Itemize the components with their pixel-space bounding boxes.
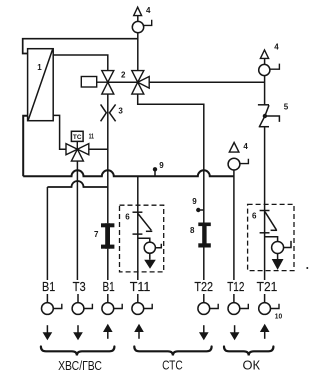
- svg-text:В1: В1: [103, 279, 115, 294]
- svg-text:3: 3: [118, 107, 123, 116]
- svg-text:6: 6: [252, 212, 257, 221]
- svg-text:СТС: СТС: [162, 358, 183, 373]
- svg-text:4: 4: [243, 142, 248, 151]
- svg-text:Т11: Т11: [130, 279, 151, 294]
- svg-text:Т21: Т21: [257, 279, 278, 294]
- svg-text:9: 9: [192, 197, 197, 206]
- svg-text:9: 9: [159, 161, 164, 170]
- svg-text:5: 5: [284, 102, 289, 111]
- svg-text:ОК: ОК: [242, 358, 260, 373]
- svg-text:6: 6: [125, 213, 130, 222]
- svg-text:1: 1: [37, 63, 42, 72]
- svg-text:TC: TC: [73, 134, 82, 141]
- svg-text:ХВС/ГВС: ХВС/ГВС: [58, 358, 102, 373]
- svg-text:Т12: Т12: [227, 279, 244, 294]
- svg-text:4: 4: [274, 43, 279, 52]
- svg-text:8: 8: [190, 226, 195, 235]
- svg-text:11: 11: [89, 133, 94, 140]
- svg-text:7: 7: [94, 230, 99, 239]
- svg-text:Т22: Т22: [194, 279, 213, 294]
- svg-text:4: 4: [146, 6, 151, 15]
- svg-text:Т3: Т3: [73, 279, 86, 294]
- svg-text:В1: В1: [42, 279, 55, 294]
- svg-text:10: 10: [275, 313, 282, 320]
- svg-text:2: 2: [121, 71, 126, 80]
